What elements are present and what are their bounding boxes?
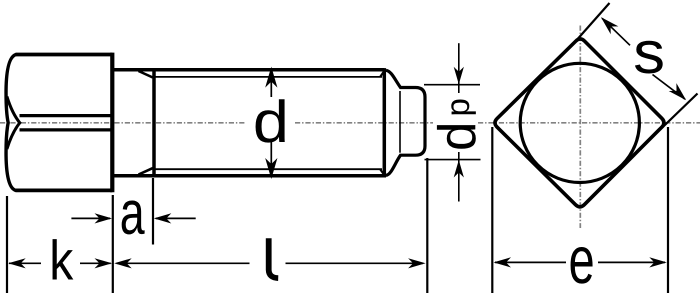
head bottom edge xyxy=(16,188,113,192)
d arrow up xyxy=(270,70,272,97)
e arrow right (points right) xyxy=(598,261,665,263)
dp arrow line top xyxy=(458,43,460,93)
bolt head outline xyxy=(6,53,112,193)
e arrow left (points left) xyxy=(494,257,512,267)
thread runout diagonal top xyxy=(139,71,153,78)
k ext line left xyxy=(6,196,8,293)
a ext line right xyxy=(152,178,154,245)
s ext line upper xyxy=(575,3,610,43)
shared ext line head right xyxy=(112,195,114,293)
label l (custom glyph with tail) xyxy=(269,238,279,278)
a arrow left (points right) xyxy=(71,217,110,219)
head right edge xyxy=(110,53,114,193)
k arrow right (points right) xyxy=(80,262,111,264)
centerline vertical (end view) xyxy=(579,26,581,229)
label a xyxy=(122,200,145,234)
label dp rotated xyxy=(437,100,476,149)
dp ext line bottom xyxy=(425,159,481,161)
shank and thread xyxy=(112,68,384,177)
s dimension xyxy=(575,3,698,135)
thread end diagonal bottom xyxy=(380,169,385,175)
k dimension xyxy=(8,239,112,279)
e ext line right xyxy=(667,127,669,293)
k arrow left (points left) xyxy=(8,258,26,268)
l dimension xyxy=(114,238,425,278)
end view square (diamond) xyxy=(495,39,664,207)
dimension extension lines bottom xyxy=(7,158,427,293)
a dimension xyxy=(71,200,195,234)
dp ext line top xyxy=(424,84,480,86)
e dimension xyxy=(492,127,668,293)
centerline horizontal xyxy=(0,122,700,124)
head top edge xyxy=(16,53,113,57)
thread root bottom line xyxy=(153,168,382,170)
head mid line upper xyxy=(20,114,113,117)
s dim line lower segment + arrow xyxy=(653,75,686,100)
l arrow right (points right) xyxy=(286,262,424,264)
dp arrow line bottom xyxy=(458,152,460,202)
head mid line lower xyxy=(20,128,113,131)
label k xyxy=(53,239,74,279)
label d xyxy=(256,99,285,142)
l ext line right xyxy=(426,158,428,293)
crest top line xyxy=(112,68,384,72)
dog point tangent line xyxy=(399,91,401,153)
dp arrowhead bottom (points up) xyxy=(454,160,464,178)
dog point xyxy=(386,70,425,175)
a arrow right (points left) xyxy=(156,217,196,219)
thread runout diagonal bottom xyxy=(139,168,153,175)
d dimension arrows xyxy=(266,68,276,177)
dog point outline xyxy=(386,70,425,175)
label s xyxy=(635,41,663,74)
s dim line upper segment + arrow xyxy=(601,17,619,34)
thread root top line xyxy=(153,76,382,78)
head chamfer funnel arcs xyxy=(7,97,20,150)
end view circle xyxy=(520,63,639,182)
thread end vertical line xyxy=(383,68,387,177)
dp arrowhead top (points down) xyxy=(454,67,464,85)
s ext line lower xyxy=(655,94,698,136)
l arrow left (points left) xyxy=(114,258,132,268)
crest bottom line xyxy=(112,174,384,178)
d arrow down xyxy=(270,141,272,176)
dp dimension xyxy=(424,43,481,201)
e ext line left xyxy=(491,127,493,293)
head left profile arcs xyxy=(6,55,16,191)
thread start vertical line xyxy=(152,68,156,177)
label e xyxy=(571,247,593,284)
thread end diagonal top xyxy=(380,71,385,77)
